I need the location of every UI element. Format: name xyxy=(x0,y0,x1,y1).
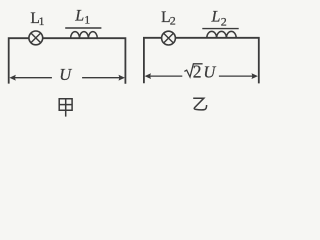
svg-text:2: 2 xyxy=(221,14,227,28)
svg-text:2: 2 xyxy=(170,14,176,28)
svg-text:2: 2 xyxy=(193,61,202,81)
svg-text:U: U xyxy=(203,62,216,81)
svg-text:U: U xyxy=(59,65,72,84)
svg-text:L: L xyxy=(211,8,221,25)
svg-text:L: L xyxy=(74,8,84,25)
svg-text:1: 1 xyxy=(39,16,45,28)
svg-text:1: 1 xyxy=(84,15,90,27)
